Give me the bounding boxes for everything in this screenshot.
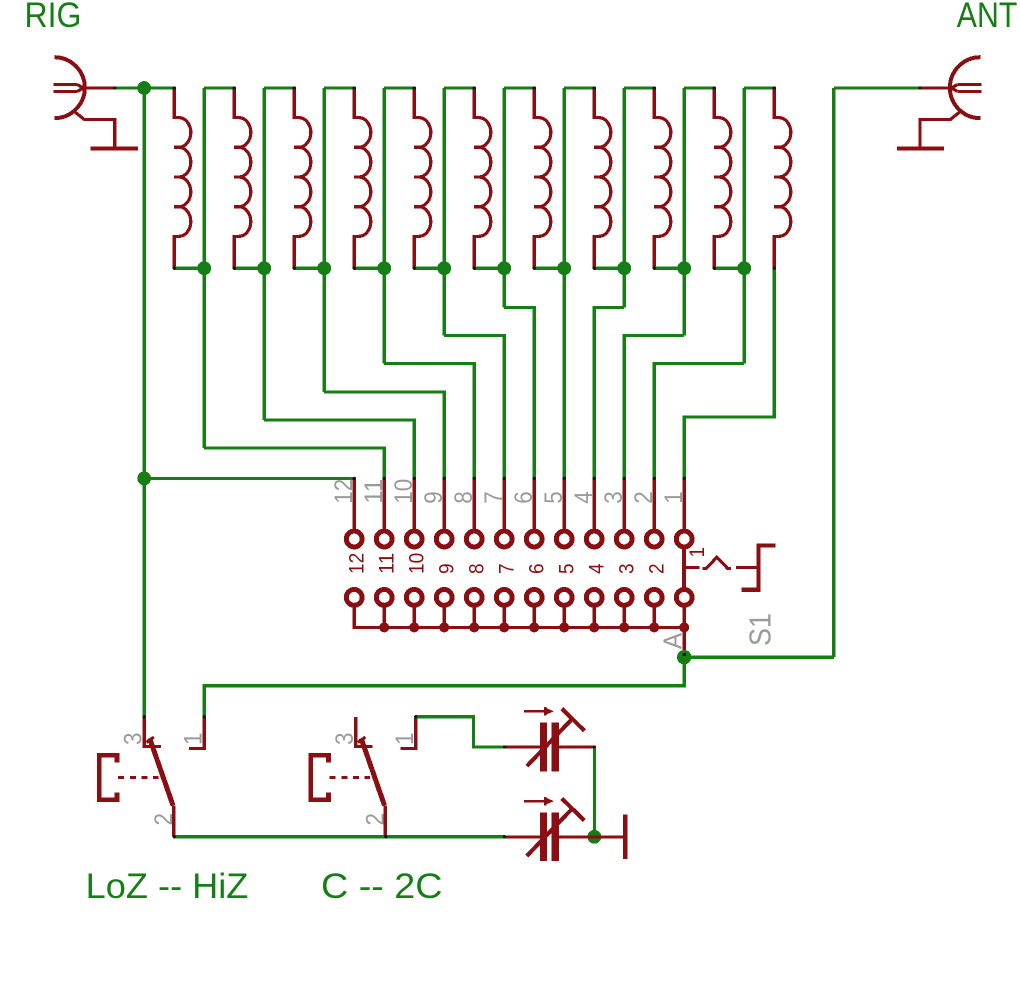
- S1 bus junction 1: [679, 622, 689, 632]
- svg-text:11: 11: [376, 553, 399, 574]
- svg-text:8: 8: [466, 563, 489, 574]
- S1 contact 1 top stub: [683, 478, 686, 531]
- svg-text:3: 3: [600, 491, 628, 504]
- connector ANT center pin: [920, 85, 981, 92]
- C/2C switch arm: [361, 738, 384, 805]
- S1 pole contact 7 circle: [496, 590, 512, 606]
- S1 contact 12 top stub: [353, 478, 356, 531]
- C/2C switch contact 3 pin: [356, 717, 373, 747]
- S1 wiper tick: [684, 566, 699, 569]
- svg-text:9: 9: [436, 563, 459, 574]
- junction tap 3: [317, 261, 331, 275]
- svg-text:ANT: ANT: [957, 0, 1018, 35]
- svg-text:10: 10: [390, 479, 418, 504]
- wire coil 5 bottom jog: [414, 267, 444, 270]
- S1 bus junction 10: [409, 622, 419, 632]
- ground bar at ANT: [897, 146, 944, 150]
- capacitor C2 left pin: [505, 835, 540, 838]
- C/2C switch arm tip tick: [358, 737, 365, 742]
- wire top segment tap 3 to coil 4 top: [324, 86, 354, 89]
- wire coil 10 bottom jog: [714, 267, 744, 270]
- capacitor C1 right pin: [559, 746, 594, 749]
- S1 contact 2 top stub: [653, 478, 656, 531]
- wire top segment tap 5 to coil 6 top: [444, 86, 474, 89]
- LoZ/HiZ switch arm tip tick: [146, 737, 153, 742]
- inductor coil 3: [294, 88, 311, 268]
- svg-text:1: 1: [686, 547, 709, 558]
- junction tap 2: [257, 261, 271, 275]
- S1 contact 6 top stub: [533, 478, 536, 531]
- S1 pole contact 3 stub: [623, 605, 626, 628]
- svg-text:S1: S1: [743, 613, 778, 646]
- wire RIG pin to coil 1 top: [115, 86, 175, 89]
- wire coil 11 bottom to contact 1: [684, 268, 774, 478]
- svg-text:A: A: [660, 633, 688, 649]
- S1 pole contact 12 stub: [353, 605, 356, 628]
- wire coil 2 bottom jog: [234, 267, 264, 270]
- capacitor C1 arrow line: [524, 710, 545, 713]
- inductor coil 11: [774, 88, 791, 268]
- S1 bus junction 11: [379, 622, 389, 632]
- svg-text:6: 6: [510, 491, 538, 504]
- svg-text:C -- 2C: C -- 2C: [321, 866, 443, 906]
- S1 bus junction 2: [649, 622, 659, 632]
- S1 contact 9 top circle: [436, 531, 452, 547]
- junction RIG fan: [137, 472, 151, 486]
- S1 pin A to node A: [683, 627, 686, 655]
- wire node A to ANT horizontal: [684, 656, 834, 659]
- wire tap 8 vertical: [623, 88, 626, 308]
- svg-text:RIG: RIG: [25, 0, 82, 35]
- C/2C switch contact 2 pin: [384, 805, 387, 836]
- connector ANT shell arc: [950, 57, 980, 118]
- wire tap 4 vertical: [383, 88, 386, 364]
- S1 contact 11 top stub: [383, 478, 386, 531]
- S1 contact 12 top circle: [346, 531, 362, 547]
- wire ANT top segment: [834, 86, 920, 89]
- capacitor C2 plate 2: [552, 812, 560, 861]
- S1 contact 7 top circle: [496, 531, 512, 547]
- svg-text:3: 3: [120, 733, 148, 746]
- junction tap 5: [437, 261, 451, 275]
- wire top segment tap 7 to coil 8 top: [564, 86, 594, 89]
- junction tap 8: [617, 261, 631, 275]
- wire coil 6 bottom jog: [474, 267, 504, 270]
- wire coil 1 bottom jog: [174, 267, 204, 270]
- ground symbol at capacitors: [623, 815, 627, 859]
- wire tap 3 vertical: [323, 88, 326, 392]
- S1 pole contact 8 circle: [466, 590, 482, 606]
- svg-text:LoZ -- HiZ: LoZ -- HiZ: [86, 866, 249, 906]
- wire tap 5 vertical: [443, 88, 446, 336]
- capacitor C2 variable stroke: [527, 808, 573, 856]
- S1 bus junction 9: [439, 622, 449, 632]
- svg-text:2: 2: [150, 813, 178, 826]
- wire ANT vertical: [832, 88, 835, 657]
- wire coil 9 bottom jog: [654, 267, 684, 270]
- capacitor C1 plate 2: [552, 723, 560, 772]
- capacitor C1 trimmer bar: [562, 709, 585, 731]
- wire bottom common: [174, 835, 504, 838]
- wire tap 2 vertical: [263, 88, 266, 420]
- wire fan run 1: [204, 448, 384, 478]
- S1 contact 5 top stub: [563, 478, 566, 531]
- connector RIG shield tail: [74, 111, 115, 146]
- wire tap 7 vertical: [563, 88, 566, 478]
- wire tap 10 vertical: [743, 88, 746, 364]
- inductor coil 5: [414, 88, 431, 268]
- inductor coil 10: [714, 88, 731, 268]
- wire coil 7 bottom jog: [534, 267, 564, 270]
- svg-text:2: 2: [646, 563, 669, 574]
- S1 pole contact 8 stub: [473, 605, 476, 628]
- wire coil 3 bottom jog: [294, 267, 324, 270]
- S1 contact 7 top stub: [503, 478, 506, 531]
- S1 wiper link: [736, 566, 759, 569]
- wire fan run 7: [594, 308, 624, 479]
- junction tap 4: [377, 261, 391, 275]
- svg-text:2: 2: [630, 491, 658, 504]
- S1 contact 8 top circle: [466, 531, 482, 547]
- S1 pole contact 2 circle: [646, 590, 662, 606]
- svg-text:1: 1: [180, 733, 208, 746]
- svg-text:4: 4: [570, 491, 598, 504]
- svg-text:12: 12: [330, 479, 358, 504]
- wire fan run 2: [264, 420, 414, 478]
- S1 contact 10 top circle: [406, 531, 422, 547]
- S1 pole contact 1 circle: [676, 590, 692, 606]
- LoZ/HiZ switch contact 3 pin: [144, 717, 161, 747]
- S1 pole contact 2 stub: [653, 605, 656, 628]
- S1 bus junction 4: [589, 622, 599, 632]
- pin-net connection marks: [113, 86, 922, 838]
- S1 contact 1 top circle: [676, 531, 692, 547]
- svg-text:7: 7: [480, 491, 508, 504]
- S1 pole contact 6 circle: [526, 590, 542, 606]
- S1 pole contact 12 circle: [346, 590, 362, 606]
- wire top segment tap 9 to coil 10 top: [684, 86, 714, 89]
- wire fan run 9: [654, 364, 744, 479]
- S1 contact 8 top stub: [473, 478, 476, 531]
- svg-text:5: 5: [556, 563, 579, 574]
- wire top segment tap 6 to coil 7 top: [504, 86, 534, 89]
- S1 contact 9 top stub: [443, 478, 446, 531]
- junction tap 10: [737, 261, 751, 275]
- inductor coil 7: [534, 88, 551, 268]
- svg-text:2: 2: [362, 813, 390, 826]
- C/2C switch actuator link (dashed): [330, 776, 370, 779]
- svg-text:4: 4: [586, 563, 609, 574]
- wire tap 1 vertical: [203, 88, 206, 448]
- wire fan run 5: [444, 336, 504, 479]
- svg-text:12: 12: [346, 553, 369, 574]
- capacitor C2 right pin to ground: [559, 835, 623, 838]
- inductor coil 9: [654, 88, 671, 268]
- junction tap 9: [677, 261, 691, 275]
- junction tap 1: [197, 261, 211, 275]
- ground bar at RIG: [91, 146, 138, 150]
- S1 contact 3 top circle: [616, 531, 632, 547]
- wire fan run 4: [384, 364, 474, 479]
- svg-text:7: 7: [496, 563, 519, 574]
- wire top segment tap 4 to coil 5 top: [384, 86, 414, 89]
- capacitor C1 plate 1: [540, 723, 547, 772]
- junction tap 7: [557, 261, 571, 275]
- inductor coil 2: [234, 88, 251, 268]
- S1 pole contact 9 circle: [436, 590, 452, 606]
- capacitor C1 variable stroke: [527, 718, 573, 766]
- S1 contact 3 top stub: [623, 478, 626, 531]
- S1 pole contact 1 stub: [683, 605, 686, 628]
- S1 contact 4 top stub: [593, 478, 596, 531]
- S1 pole contact 5 stub: [563, 605, 566, 628]
- connector RIG shell arc: [54, 57, 85, 118]
- wire tap 6 vertical: [503, 88, 506, 308]
- S1 pole contact 10 circle: [406, 590, 422, 606]
- C/2C switch contact 1 pin: [401, 717, 416, 749]
- S1 pole contact 3 circle: [616, 590, 632, 606]
- S1 bus junction 8: [469, 622, 479, 632]
- wire capacitor 1 to capacitor 2: [593, 747, 596, 837]
- wire coil 4 bottom jog: [354, 267, 384, 270]
- wire RIG vertical to LoZ switch: [143, 88, 146, 717]
- S1 bus junction 5: [559, 622, 569, 632]
- svg-text:10: 10: [406, 553, 429, 574]
- wire coil 8 bottom jog: [594, 267, 624, 270]
- node A junction: [677, 650, 691, 664]
- wire C/2C contact 1 to capacitor 1: [416, 717, 505, 747]
- S1 pole contact 4 circle: [586, 590, 602, 606]
- LoZ/HiZ switch actuator bracket: [99, 755, 117, 800]
- S1 pole contact 11 stub: [383, 605, 386, 628]
- wire RIG to contact 12 run: [144, 477, 354, 480]
- inductor coil 4: [354, 88, 371, 268]
- svg-text:3: 3: [331, 733, 359, 746]
- S1 pole contact 7 stub: [503, 605, 506, 628]
- capacitor C2 arrow tick: [544, 797, 546, 805]
- junction capacitor common: [588, 830, 602, 844]
- inductor coil 1: [174, 88, 191, 268]
- wire top segment tap 10 to coil 11 top: [744, 86, 774, 89]
- LoZ/HiZ switch contact 1 pin: [189, 717, 204, 749]
- S1 contact 4 top circle: [586, 531, 602, 547]
- LoZ/HiZ switch arm: [150, 738, 173, 805]
- connector ANT shield tail: [920, 111, 961, 146]
- junction tap 6: [497, 261, 511, 275]
- capacitor C2 trimmer bar: [562, 799, 585, 821]
- C/2C switch actuator bracket: [311, 755, 329, 800]
- LoZ/HiZ switch actuator link (dashed): [118, 776, 158, 779]
- wire fan run 3: [324, 392, 444, 478]
- S1 wiper column: [682, 547, 686, 590]
- S1 bus junction 7: [499, 622, 509, 632]
- wire top segment tap 8 to coil 9 top: [624, 86, 654, 89]
- capacitor C1 left pin: [505, 746, 540, 749]
- svg-text:5: 5: [540, 491, 568, 504]
- S1 pole common bus: [354, 605, 684, 628]
- S1 pole contact 9 stub: [443, 605, 446, 628]
- svg-text:11: 11: [360, 479, 388, 504]
- inductor coil 8: [594, 88, 611, 268]
- capacitor C2 arrow line: [524, 800, 545, 803]
- inductor coil 6: [474, 88, 491, 268]
- wire top segment tap 1 to coil 2 top: [204, 86, 234, 89]
- wire fan run 6: [504, 308, 534, 479]
- S1 pole contact 6 stub: [533, 605, 536, 628]
- connector RIG center pin: [54, 85, 115, 92]
- LoZ/HiZ switch contact 2 pin: [172, 805, 175, 836]
- svg-text:1: 1: [660, 491, 688, 504]
- svg-text:6: 6: [526, 563, 549, 574]
- S1 bus junction 6: [529, 622, 539, 632]
- S1 pole contact 11 circle: [376, 590, 392, 606]
- wire tap 9 vertical: [683, 88, 686, 336]
- S1 contact 5 top circle: [556, 531, 572, 547]
- S1 wiper arrow: [703, 557, 731, 568]
- wire fan run 8: [624, 336, 684, 479]
- svg-text:9: 9: [420, 491, 448, 504]
- junction RIG top: [137, 81, 151, 95]
- capacitor C2 arrow head: [545, 797, 554, 805]
- capacitor C1 arrow head: [545, 707, 554, 715]
- S1 pole contact 10 stub: [413, 605, 416, 628]
- wire node A down-left to HiZ contact: [204, 657, 684, 717]
- S1 contact 6 top circle: [526, 531, 542, 547]
- svg-text:3: 3: [616, 563, 639, 574]
- capacitor C1 arrow tick: [544, 707, 546, 715]
- capacitor C2 plate 1: [540, 812, 547, 861]
- wire top segment tap 2 to coil 3 top: [264, 86, 294, 89]
- svg-text:8: 8: [450, 491, 478, 504]
- S1 contact 10 top stub: [413, 478, 416, 531]
- S1 contact 11 top circle: [376, 531, 392, 547]
- S1 bus junction 3: [619, 622, 629, 632]
- S1 pole contact 5 circle: [556, 590, 572, 606]
- S1 pole contact 4 stub: [593, 605, 596, 628]
- S1 lever: [742, 546, 776, 590]
- S1 contact 2 top circle: [646, 531, 662, 547]
- svg-text:1: 1: [391, 733, 419, 746]
